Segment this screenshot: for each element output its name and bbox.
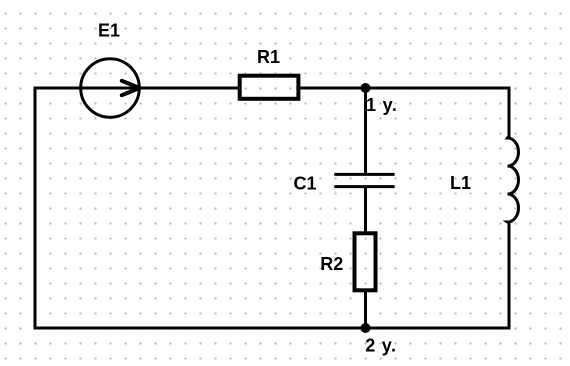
svg-text:1 у.: 1 у. [366,95,398,115]
wire: right side above L1 [508,87,511,138]
resistor R1 [240,76,299,99]
wire: C1 down to R2 [364,187,367,234]
svg-text:C1: C1 [294,174,317,194]
wire: bottom segment (node 2 to bottom-right corner) [366,327,511,330]
svg-text:2 у.: 2 у. [365,335,397,355]
capacitor C1 [334,174,394,186]
wire: top-middle segment (R1 to node 1) [300,87,366,90]
wire: left side [34,87,37,330]
source E1 (circle with current arrow) [81,59,140,118]
wire: right side below L1 [508,222,511,330]
inductor L1 [508,136,519,223]
svg-text:R2: R2 [320,254,343,274]
node 1 junction [361,83,371,93]
wire: R2 down to node 2 [364,290,367,329]
wire: top-left segment (left corner through E1 to R1) [34,87,239,90]
svg-text:E1: E1 [98,21,120,41]
wire: top-right segment (node 1 to top-right corner) [366,87,511,90]
wire: node 1 down to C1 [364,88,367,174]
svg-text:L1: L1 [450,173,471,193]
resistor R2 [355,233,376,290]
node 2 junction [361,323,371,333]
wire: bottom segment (left corner to node 2) [34,327,366,330]
svg-text:R1: R1 [257,47,280,67]
